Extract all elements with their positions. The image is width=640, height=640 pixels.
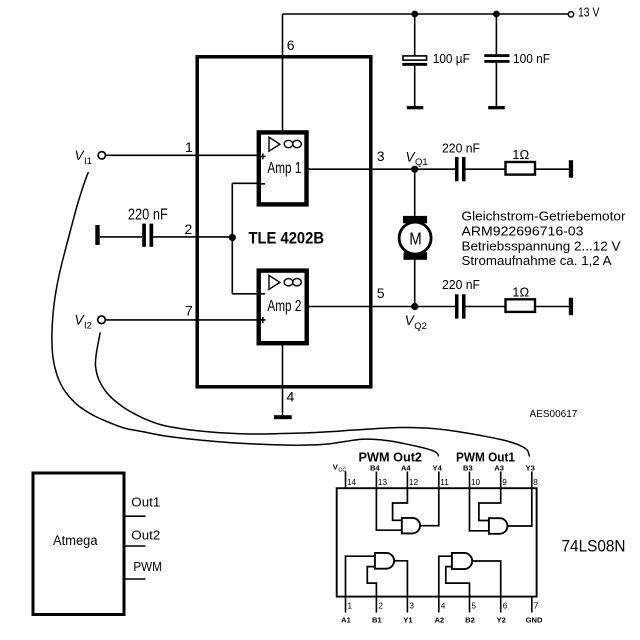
capacitor 100nF: [484, 14, 550, 109]
svg-text:6: 6: [287, 37, 295, 53]
svg-text:TLE 4202B: TLE 4202B: [249, 230, 325, 248]
wire pin 4 to ground: [282, 343, 284, 415]
terminal bar for 220nF input cap: [95, 225, 99, 245]
svg-text:2: 2: [185, 221, 193, 237]
wire pin 2: [153, 236, 232, 238]
svg-text:7: 7: [534, 601, 539, 610]
op-amp Amp2: [259, 271, 307, 344]
svg-text:74LS08N: 74LS08N: [562, 538, 626, 556]
svg-text:Amp 1: Amp 1: [267, 160, 301, 177]
svg-text:Atmega: Atmega: [53, 533, 98, 548]
wire hand-drawn from VI1 to Y4: [52, 172, 439, 456]
snubber 2: capacitor 220nF: [442, 277, 480, 319]
svg-text:M: M: [409, 229, 422, 249]
svg-text:Y4: Y4: [433, 464, 443, 473]
AND gate G4 body: [452, 553, 472, 569]
AND gate G1 (Y4) wiring: [376, 487, 401, 530]
svg-text:B2: B2: [465, 616, 475, 625]
wire: [535, 168, 569, 170]
pin 7 stub: [531, 598, 533, 613]
pin PWM stub: [126, 578, 146, 580]
svg-text:220 nF: 220 nF: [128, 206, 168, 223]
AND gate G3 (Y1) wiring: [346, 556, 375, 597]
pin 6 stub: [500, 598, 502, 613]
terminal bar R1: [569, 160, 573, 178]
pin 3 stub: [406, 598, 408, 613]
svg-text:Out1: Out1: [131, 495, 160, 510]
op-amp Amp1: [259, 132, 307, 204]
wire pin 1 input: [106, 154, 259, 156]
svg-text:Stromaufnahme ca. 1,2 A: Stromaufnahme ca. 1,2 A: [462, 253, 612, 268]
capacitor C3 220nF: [128, 206, 168, 246]
wire: [466, 306, 506, 308]
pin 5 stub: [469, 598, 471, 613]
svg-text:220 nF: 220 nF: [442, 277, 480, 292]
pin 13 stub: [375, 472, 377, 488]
svg-text:PWM Out1: PWM Out1: [456, 449, 515, 464]
svg-text:4: 4: [287, 389, 295, 405]
svg-text:GND: GND: [526, 616, 543, 625]
pin 9 stub: [500, 472, 502, 488]
svg-text:Y2: Y2: [497, 616, 506, 625]
svg-text:13 V: 13 V: [578, 5, 600, 20]
svg-text:Amp 2: Amp 2: [267, 298, 301, 315]
svg-text:AES00617: AES00617: [530, 409, 578, 420]
pin 4 stub: [438, 598, 440, 613]
IC U2 Atmega box: [33, 473, 124, 615]
motor description text: [462, 209, 627, 268]
svg-text:I1: I1: [84, 156, 92, 167]
IC U1 TLE4202B outline: [197, 57, 371, 387]
svg-text:1Ω: 1Ω: [512, 285, 529, 300]
resistor R2 1ohm: [506, 285, 536, 312]
svg-text:Q1: Q1: [415, 157, 428, 168]
svg-text:Out2: Out2: [131, 528, 160, 543]
wire pin 3 output: [307, 168, 456, 170]
node feedback junction: [229, 183, 258, 293]
node VQ1: [411, 166, 418, 173]
svg-text:5: 5: [377, 285, 385, 301]
svg-text:14: 14: [347, 478, 357, 487]
svg-text:5: 5: [472, 601, 477, 610]
svg-text:A2: A2: [434, 616, 444, 625]
svg-text:PWM: PWM: [133, 559, 162, 574]
pin 8 stub: [531, 472, 533, 488]
pin Out1 stub: [126, 515, 146, 517]
wire pin 5 output: [307, 306, 456, 308]
node junction rail/C1: [411, 11, 418, 18]
wire hand-drawn from VI2 to Y3: [95, 332, 529, 456]
svg-text:A3: A3: [494, 464, 504, 473]
wire pin 6 from rail to Amp1: [282, 14, 284, 132]
wire: [100, 236, 143, 238]
svg-text:1: 1: [185, 139, 193, 155]
svg-text:B1: B1: [372, 616, 382, 625]
capacitor 100uF: [402, 14, 470, 109]
AND gate G2 (Y3) wiring: [470, 487, 489, 531]
svg-text:Q2: Q2: [414, 321, 427, 332]
svg-text:11: 11: [440, 478, 449, 487]
svg-text:Y1: Y1: [403, 616, 413, 625]
pin 1 stub: [345, 598, 347, 613]
svg-text:A4: A4: [401, 464, 411, 473]
wire pin 7 input: [106, 319, 258, 321]
svg-text:9: 9: [502, 478, 507, 487]
AND gate G1 body: [402, 518, 420, 534]
svg-text:7: 7: [185, 303, 193, 319]
motor M1: [399, 169, 431, 306]
svg-text:2: 2: [378, 601, 383, 610]
AND gate G2 body: [489, 518, 508, 534]
svg-text:ARM922696716-03: ARM922696716-03: [462, 223, 584, 238]
svg-text:3: 3: [409, 601, 414, 610]
svg-text:I2: I2: [84, 320, 92, 331]
pin Out2 stub: [126, 545, 146, 547]
terminal VI2: [98, 316, 106, 324]
pin 2 stub: [375, 598, 377, 613]
wire: 13V supply rail: [283, 13, 569, 15]
svg-text:B3: B3: [463, 464, 473, 473]
ground: [274, 415, 292, 419]
resistor R1 1ohm: [506, 147, 536, 175]
svg-text:6: 6: [503, 601, 508, 610]
svg-text:100 µF: 100 µF: [433, 52, 470, 66]
snubber 1: capacitor 220nF: [442, 141, 480, 182]
svg-text:1Ω: 1Ω: [512, 147, 529, 162]
pin 12 stub: [406, 472, 408, 488]
svg-text:1: 1: [348, 601, 353, 610]
AND gate G3 body: [375, 553, 394, 569]
pin 14 stub: [345, 472, 347, 488]
svg-text:13: 13: [378, 478, 388, 487]
svg-text:100 nF: 100 nF: [513, 52, 550, 66]
IC U3 74LS08N outline: [337, 488, 537, 596]
terminal bar R2: [569, 298, 573, 316]
pin 10 stub: [469, 472, 471, 488]
wire: [535, 306, 569, 308]
svg-text:A1: A1: [341, 616, 351, 625]
svg-text:B4: B4: [370, 464, 380, 473]
node VQ2: [411, 303, 418, 310]
svg-text:12: 12: [409, 478, 419, 487]
svg-text:220 nF: 220 nF: [442, 141, 480, 156]
AND gate G4 (Y2) wiring: [439, 556, 452, 597]
terminal VI1: [98, 152, 105, 159]
svg-text:3: 3: [377, 148, 385, 164]
svg-text:10: 10: [471, 478, 481, 487]
terminal 13V: [568, 12, 573, 17]
svg-text:4: 4: [441, 601, 446, 610]
svg-text:PWM Out2: PWM Out2: [359, 449, 423, 464]
svg-text:CC: CC: [338, 468, 346, 474]
svg-text:Gleichstrom-Getriebemotor: Gleichstrom-Getriebemotor: [462, 209, 627, 224]
svg-text:8: 8: [533, 478, 538, 487]
wire: [466, 168, 506, 170]
node junction rail/C2: [493, 11, 500, 18]
svg-text:Betriebsspannung 2...12 V: Betriebsspannung 2...12 V: [462, 238, 621, 253]
pin 11 stub: [438, 472, 440, 488]
svg-text:Y3: Y3: [526, 464, 535, 473]
